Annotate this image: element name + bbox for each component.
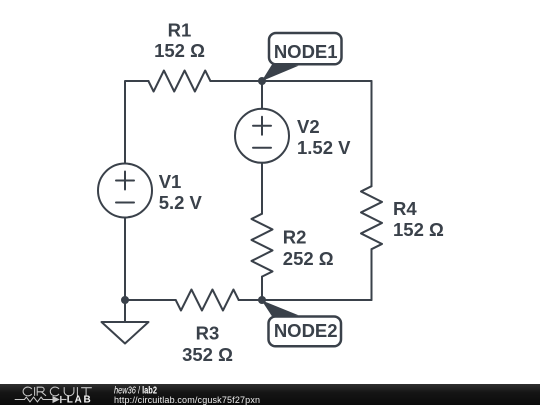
resistor R2 [252,214,273,277]
wire: left vertical lower (V1 bottom to ground node) [124,218,126,301]
node flag NODE1 tail [262,64,299,81]
svg-text:http://circuitlab.com/cgusk75f: http://circuitlab.com/cgusk75f27pxn [114,395,260,405]
wire: top horizontal (R1 right to top-right corner) [211,80,372,82]
wire: right vertical upper (top-right corner to R4 top) [371,81,373,186]
resistor R4 [361,186,382,249]
footer bar [0,384,540,405]
CircuitLab logo wordmark CIRCUIT (drawn letters) [23,387,92,396]
wire: R3 right to node2 [239,299,262,301]
wire: bottom horizontal left (ground node to R3 left) [125,299,176,301]
CircuitLab logo diode [53,396,60,403]
node flag NODE1 box [269,33,342,64]
resistor R1 [148,71,210,92]
wire: left vertical upper (top-left corner to V1 top) [125,81,149,164]
wire: R2 bottom to node2 [261,277,263,300]
CircuitLab logo resistor zigzag [15,397,53,402]
node junction dot NODE2 [258,296,266,304]
node junction dot NODE1 [258,77,266,85]
wire: V2 bottom to R2 top [261,163,263,214]
wire: bottom horizontal right (node2 to bottom-right corner) [262,299,372,301]
node flag NODE2 box [269,317,342,347]
node junction dot at ground [121,296,129,304]
wire: V2 top stub (node1 to V2 circle) [261,81,263,109]
voltage source V2 [235,109,289,163]
wire: ground stub [124,300,126,322]
svg-text:LAB: LAB [67,394,91,405]
ground symbol [102,322,149,344]
resistor R3 [176,290,239,311]
voltage source V1 [98,164,152,218]
node flag NODE2 tail [262,300,299,317]
wire: right vertical lower (R4 bottom to bottom-right corner) [371,249,373,300]
